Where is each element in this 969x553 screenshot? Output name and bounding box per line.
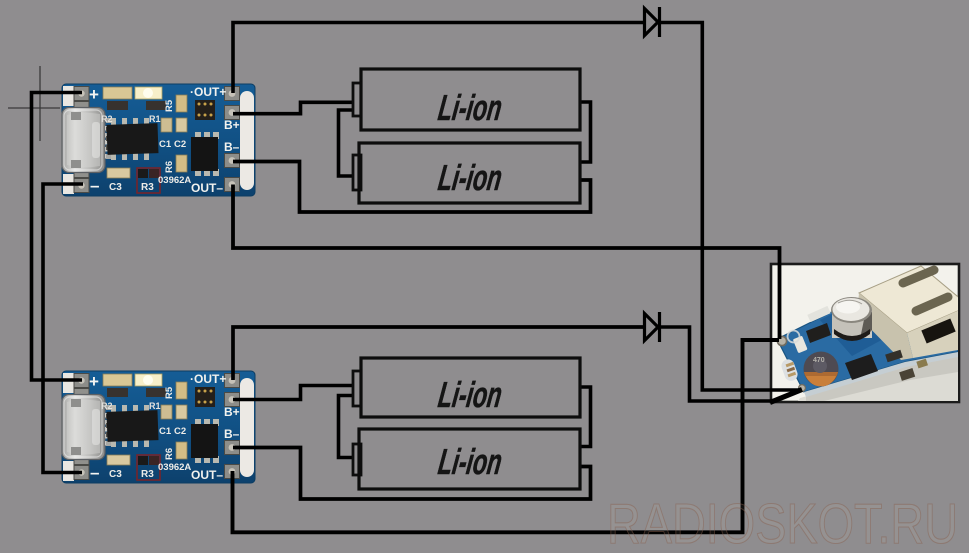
usb black opening [924, 325, 953, 337]
usb shell lower band [907, 306, 969, 358]
corner pad hole [799, 385, 806, 392]
wire battery3+ to battery4+ right side [580, 387, 591, 447]
svg-text:Li-ion: Li-ion [436, 157, 505, 198]
wire module2 B+ to battery3 [233, 386, 353, 400]
battery B3 [361, 358, 580, 417]
module U1 (top TP4056) [62, 84, 255, 196]
wire B+ to battery1 [233, 102, 353, 113]
thin crosshair horizontal line [8, 107, 60, 109]
wire parallel link batteries 3-4 [339, 396, 354, 458]
sot23 [806, 323, 831, 343]
arrow into boost module [770, 390, 802, 403]
silk oval with resistor [780, 358, 800, 383]
wire parallel link batteries 1-2 [339, 110, 354, 176]
wire module2 B- to battery4 right [233, 448, 591, 500]
usb slot window 1 [903, 270, 934, 283]
darker blue patches [820, 296, 900, 356]
wire diode2 right and down to arrow [659, 327, 772, 401]
white smd [793, 336, 808, 354]
wire module2 OUT- bottom to boost input [233, 340, 780, 532]
svg-text:RADIOSKOT.RU: RADIOSKOT.RU [607, 492, 958, 553]
electrolytic capacitor [832, 310, 872, 338]
battery B4 [359, 429, 580, 489]
thin crosshair vertical line [39, 66, 41, 141]
pcb board [777, 294, 958, 392]
usb pins below [885, 350, 903, 363]
white silk marks [807, 306, 830, 322]
toroid inductor [804, 352, 839, 387]
battery B2 [359, 143, 580, 203]
wire module2 OUT+ up to diode2 [233, 327, 643, 380]
diode D2 [645, 312, 660, 342]
wires: module1 left - [43, 184, 83, 473]
diode D1 [645, 7, 660, 37]
transistor [845, 354, 878, 380]
wire battery1+ to battery2+ right side [580, 102, 591, 162]
svg-text:470: 470 [813, 357, 825, 364]
wire OUT+ top to diode [233, 23, 643, 94]
shadow lower right [798, 356, 958, 401]
battery B1 [361, 69, 580, 130]
svg-text:Li-ion: Li-ion [436, 441, 505, 482]
svg-text:Li-ion: Li-ion [436, 87, 505, 128]
wire B- to battery2 right [233, 162, 591, 213]
usb-a connector shell top face [859, 266, 969, 333]
input pad hole [777, 336, 786, 345]
usb shell front-left face [857, 293, 913, 360]
usb slot window 2 [916, 297, 948, 311]
wire OUT- to boost input [233, 185, 780, 340]
wires: module1 left + [32, 93, 83, 381]
wire diode to right down to arrow [659, 23, 801, 391]
photo frame [771, 264, 959, 402]
module U2 (bottom TP4056) [62, 371, 255, 483]
svg-text:Li-ion: Li-ion [436, 374, 505, 415]
pcb edge light [804, 352, 958, 397]
